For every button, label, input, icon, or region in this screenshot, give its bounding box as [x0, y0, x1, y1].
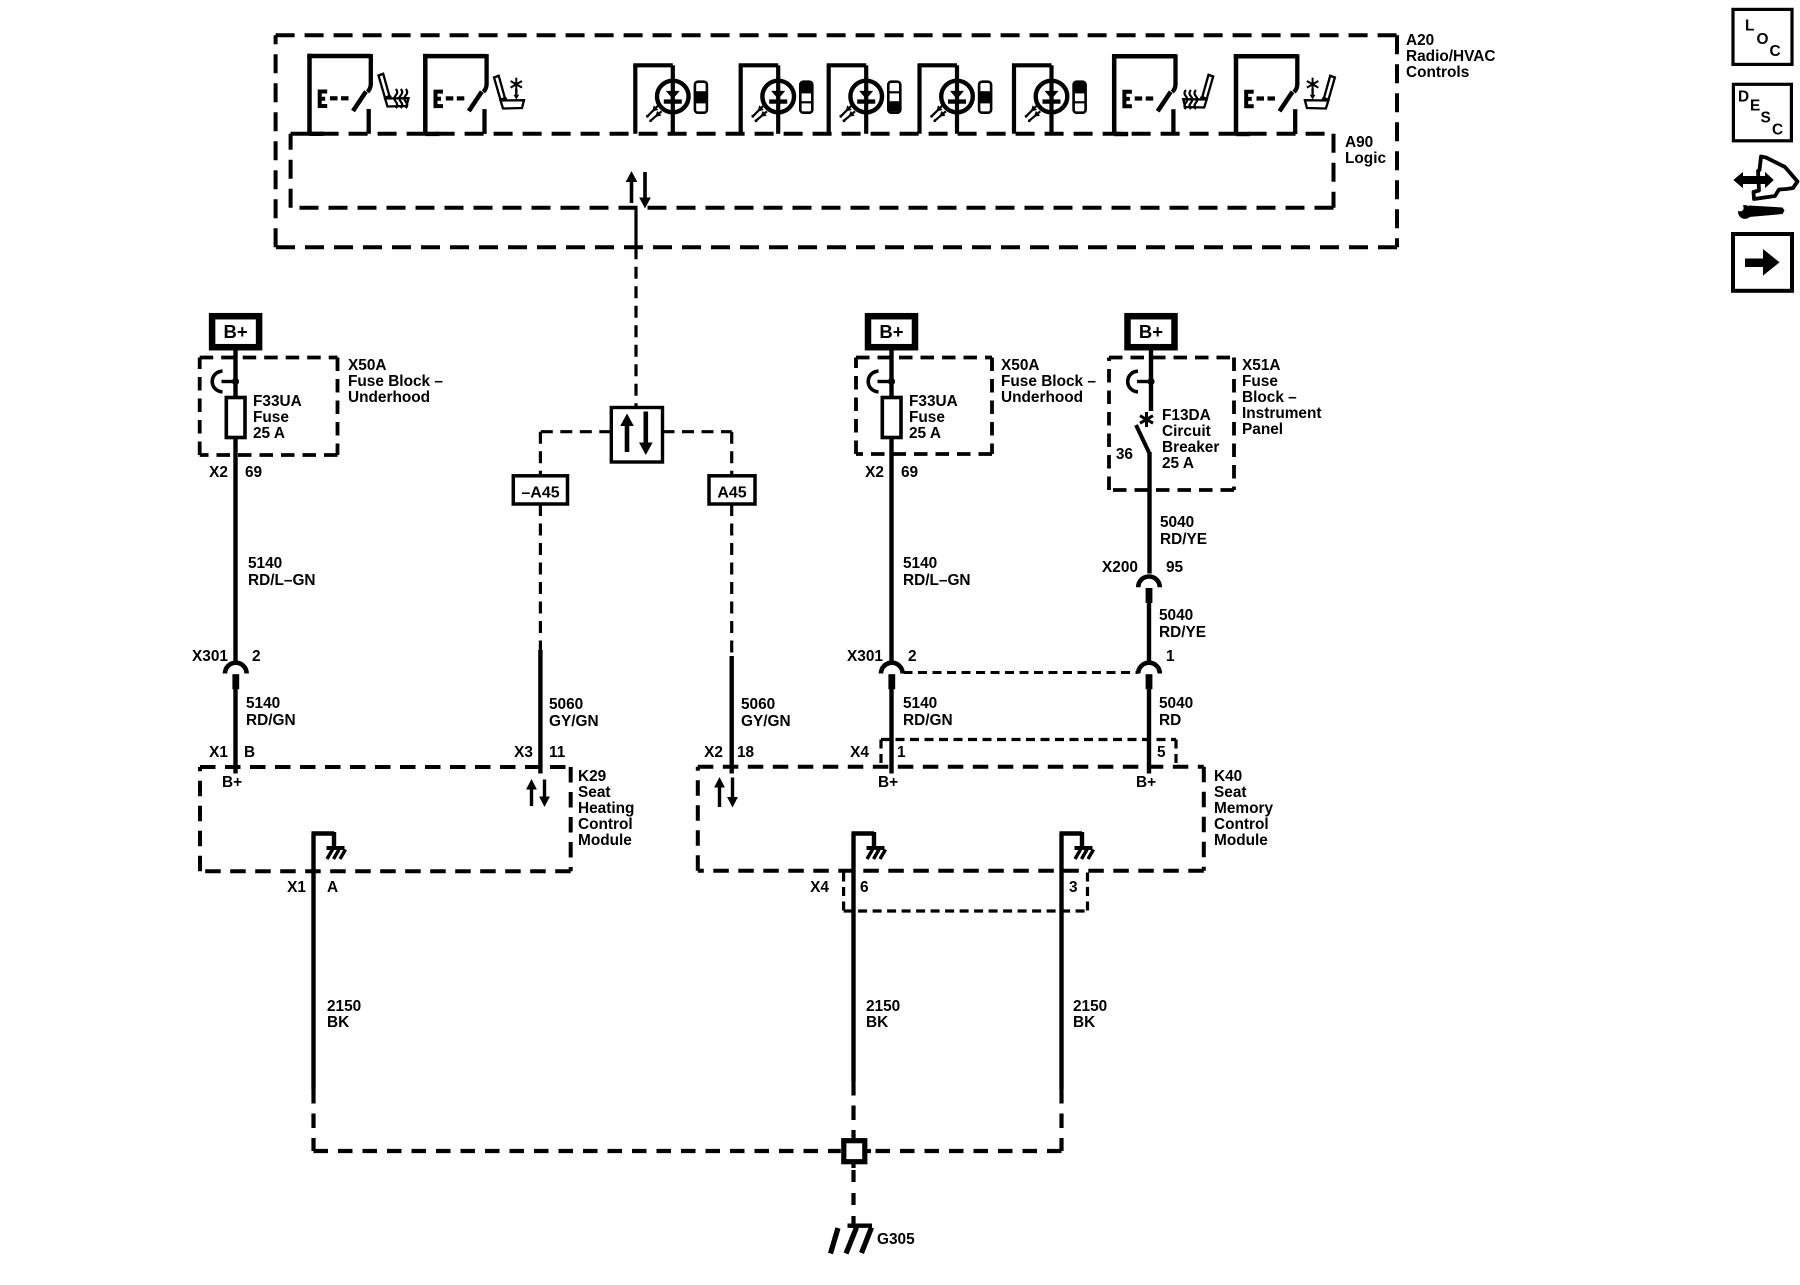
svg-text:RD/YE: RD/YE [1159, 624, 1206, 641]
svg-text:Module: Module [578, 832, 632, 849]
svg-text:F33UA: F33UA [253, 393, 302, 410]
svg-text:Fuse Block –: Fuse Block – [1001, 373, 1096, 390]
svg-text:Control: Control [578, 816, 633, 833]
svg-text:Heating: Heating [578, 800, 634, 817]
svg-text:Underhood: Underhood [348, 389, 430, 406]
svg-text:X51A: X51A [1242, 357, 1281, 374]
svg-text:K29: K29 [578, 768, 606, 785]
svg-text:X50A: X50A [348, 357, 387, 374]
svg-text:A20: A20 [1406, 32, 1434, 49]
svg-text:Underhood: Underhood [1001, 389, 1083, 406]
svg-text:5040: 5040 [1159, 695, 1193, 712]
svg-text:X50A: X50A [1001, 357, 1040, 374]
svg-text:S: S [1761, 110, 1771, 127]
svg-text:A45: A45 [717, 485, 746, 502]
svg-text:X2: X2 [209, 464, 228, 481]
svg-text:X301: X301 [192, 648, 228, 665]
svg-text:F33UA: F33UA [909, 393, 958, 410]
svg-text:GY/GN: GY/GN [741, 713, 791, 730]
svg-text:BK: BK [866, 1014, 888, 1031]
svg-text:Seat: Seat [1214, 784, 1247, 801]
svg-text:E: E [1750, 98, 1760, 115]
svg-text:3: 3 [1069, 879, 1078, 896]
svg-text:B+: B+ [878, 774, 898, 791]
svg-text:Fuse: Fuse [909, 409, 945, 426]
svg-text:X2: X2 [865, 464, 884, 481]
svg-text:6: 6 [860, 879, 869, 896]
svg-text:C: C [1770, 43, 1781, 60]
svg-text:Memory: Memory [1214, 800, 1273, 817]
svg-text:5140: 5140 [903, 695, 937, 712]
svg-text:O: O [1757, 31, 1769, 48]
svg-text:X1: X1 [287, 879, 306, 896]
svg-text:1: 1 [1166, 648, 1175, 665]
svg-text:Control: Control [1214, 816, 1269, 833]
svg-text:B+: B+ [879, 321, 903, 342]
svg-text:Fuse: Fuse [1242, 373, 1278, 390]
svg-text:1: 1 [897, 744, 906, 761]
svg-text:25 A: 25 A [909, 425, 941, 442]
svg-text:69: 69 [901, 464, 918, 481]
svg-text:2150: 2150 [327, 998, 361, 1015]
svg-text:X1: X1 [209, 744, 228, 761]
svg-text:5060: 5060 [549, 696, 583, 713]
svg-text:Circuit: Circuit [1162, 423, 1211, 440]
svg-text:A90: A90 [1345, 134, 1373, 151]
svg-text:RD/YE: RD/YE [1160, 531, 1207, 548]
svg-text:X2: X2 [704, 744, 723, 761]
svg-text:BK: BK [327, 1014, 349, 1031]
svg-text:RD: RD [1159, 712, 1181, 729]
svg-text:B+: B+ [1136, 774, 1156, 791]
svg-text:Radio/HVAC: Radio/HVAC [1406, 48, 1496, 65]
svg-text:5040: 5040 [1160, 514, 1194, 531]
svg-text:X200: X200 [1102, 559, 1138, 576]
svg-text:L: L [1745, 18, 1754, 35]
svg-text:B: B [244, 744, 255, 761]
svg-text:–A45: –A45 [521, 485, 559, 502]
svg-text:36: 36 [1116, 446, 1133, 463]
svg-text:RD/GN: RD/GN [903, 712, 953, 729]
svg-text:Block –: Block – [1242, 389, 1297, 406]
svg-text:5140: 5140 [903, 555, 937, 572]
svg-text:11: 11 [549, 744, 566, 761]
svg-text:BK: BK [1073, 1014, 1095, 1031]
svg-text:A: A [327, 879, 338, 896]
svg-text:X4: X4 [850, 744, 869, 761]
svg-text:5140: 5140 [246, 695, 280, 712]
svg-text:25 A: 25 A [1162, 455, 1194, 472]
svg-text:Logic: Logic [1345, 150, 1386, 167]
svg-text:B+: B+ [1139, 321, 1163, 342]
svg-text:5040: 5040 [1159, 607, 1193, 624]
svg-text:D: D [1738, 89, 1749, 106]
svg-text:Panel: Panel [1242, 421, 1283, 438]
svg-text:X301: X301 [847, 648, 883, 665]
svg-text:B+: B+ [224, 321, 248, 342]
svg-text:2: 2 [252, 648, 261, 665]
svg-text:Fuse: Fuse [253, 409, 289, 426]
svg-text:K40: K40 [1214, 768, 1242, 785]
svg-text:G305: G305 [877, 1231, 915, 1248]
svg-text:2150: 2150 [866, 998, 900, 1015]
svg-text:Seat: Seat [578, 784, 611, 801]
svg-text:5140: 5140 [248, 555, 282, 572]
svg-text:Module: Module [1214, 832, 1268, 849]
svg-text:RD/L–GN: RD/L–GN [903, 572, 971, 589]
svg-text:5060: 5060 [741, 696, 775, 713]
svg-text:Instrument: Instrument [1242, 405, 1322, 422]
svg-text:2150: 2150 [1073, 998, 1107, 1015]
svg-text:C: C [1772, 122, 1783, 139]
svg-text:Fuse Block –: Fuse Block – [348, 373, 443, 390]
svg-text:X4: X4 [810, 879, 829, 896]
svg-text:B+: B+ [222, 774, 242, 791]
svg-text:18: 18 [737, 744, 755, 761]
svg-text:95: 95 [1166, 559, 1184, 576]
svg-text:5: 5 [1157, 744, 1166, 761]
svg-text:69: 69 [245, 464, 262, 481]
svg-text:GY/GN: GY/GN [549, 713, 599, 730]
svg-text:2: 2 [908, 648, 917, 665]
svg-text:25 A: 25 A [253, 425, 285, 442]
svg-text:RD/L–GN: RD/L–GN [248, 572, 316, 589]
svg-text:F13DA: F13DA [1162, 407, 1211, 424]
svg-text:X3: X3 [514, 744, 533, 761]
svg-text:Breaker: Breaker [1162, 439, 1219, 456]
svg-text:RD/GN: RD/GN [246, 712, 296, 729]
svg-text:Controls: Controls [1406, 64, 1469, 81]
